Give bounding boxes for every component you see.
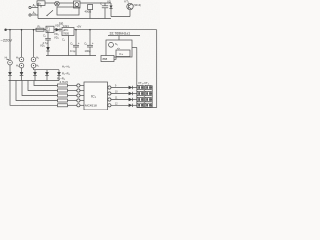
svg-text:VD: VD	[107, 0, 111, 4]
wire bottom a	[38, 18, 111, 20]
wire osc to VT feed	[132, 47, 137, 49]
contact row1	[137, 85, 151, 89]
label pin numbers	[115, 86, 118, 106]
svg-text:~220V: ~220V	[1, 38, 13, 43]
svg-text:H₁: H₁	[5, 56, 8, 60]
wire lamp column 2	[21, 30, 23, 58]
svg-text:4.7k×5: 4.7k×5	[60, 80, 69, 84]
lamp H4	[16, 63, 24, 68]
resistor R7	[58, 94, 77, 97]
svg-text:VD₁: VD₁	[55, 24, 60, 28]
wire regulator ground	[68, 36, 70, 56]
wire right edge	[156, 30, 158, 108]
box display driver	[101, 56, 114, 62]
wire route row2	[28, 81, 58, 91]
pin circle 3	[77, 94, 84, 97]
wire osc feed	[118, 36, 120, 40]
wire K1 lead	[40, 5, 42, 7]
wire top b	[60, 2, 74, 4]
wire diode header	[34, 69, 60, 71]
svg-text:H₅: H₅	[36, 64, 39, 68]
resistor R12	[85, 5, 93, 19]
sub box F	[116, 50, 130, 57]
wire matrix row stubs	[151, 88, 152, 106]
diode row4	[129, 104, 137, 107]
svg-text:VT₅: VT₅	[124, 0, 130, 4]
contact row3	[137, 97, 151, 101]
svg-text:400Ω: 400Ω	[85, 10, 92, 14]
lamp H3	[31, 56, 39, 62]
oscillator box U2	[106, 40, 132, 57]
buzzer HA	[55, 1, 60, 6]
pin circle 1	[77, 84, 84, 87]
wire lamp column 1	[9, 30, 11, 61]
ground bus	[46, 55, 96, 57]
diode VD14	[45, 70, 49, 81]
diode VD15	[57, 70, 61, 81]
wire matrix column B	[151, 85, 153, 107]
pin circle out2	[108, 92, 129, 95]
resistor R5	[58, 84, 77, 87]
pin circle 2	[77, 89, 84, 92]
pin circle 4	[77, 99, 84, 102]
contact row4	[137, 103, 151, 107]
svg-text:H₃: H₃	[36, 56, 39, 60]
svg-text:VD₃: VD₃	[54, 32, 59, 36]
IC U1	[84, 82, 108, 110]
svg-text:1621: 1621	[63, 24, 69, 28]
svg-text:MC4518: MC4518	[85, 104, 97, 108]
svg-text:C₄: C₄	[62, 38, 65, 42]
wire matrix bottom	[137, 107, 157, 109]
diode VD2	[40, 43, 50, 55]
svg-text:32.768kHz±1: 32.768kHz±1	[110, 32, 131, 36]
svg-text:F+: F+	[120, 52, 124, 56]
wire route row4	[16, 81, 58, 101]
svg-text:+5V: +5V	[77, 24, 82, 28]
regulator U3	[62, 28, 74, 36]
pin circle 5	[77, 104, 84, 107]
wire matrix column A	[143, 85, 145, 107]
svg-text:IC₂: IC₂	[91, 95, 97, 99]
contact row2	[137, 91, 151, 95]
transistor VT5	[127, 3, 133, 16]
relay box K	[57, 7, 79, 15]
wire top c	[80, 2, 111, 4]
svg-text:S₁: S₁	[115, 42, 118, 46]
svg-text:μPC: μPC	[63, 28, 68, 32]
terminal A1	[29, 6, 38, 8]
wire frequency underline	[108, 35, 140, 37]
svg-text:H₂: H₂	[16, 56, 19, 60]
wire route row1	[34, 81, 58, 86]
meter box P	[74, 1, 81, 8]
svg-text:C: C	[100, 2, 102, 6]
wire route row5	[10, 81, 58, 106]
resistor R9	[58, 104, 77, 107]
wire lamp2 lead	[21, 68, 23, 71]
diode VD12	[20, 71, 24, 80]
svg-text:+: +	[92, 41, 94, 45]
diode row2	[129, 92, 137, 95]
svg-text:100μ: 100μ	[85, 49, 91, 53]
svg-text:C₁: C₁	[43, 34, 46, 38]
svg-text:H₄: H₄	[16, 64, 19, 68]
svg-text:H₁~H₄: H₁~H₄	[62, 65, 71, 69]
svg-text:R₁~R₄: R₁~R₄	[62, 72, 71, 76]
node mains terminal	[5, 29, 7, 31]
svg-text:(9013): (9013)	[134, 3, 142, 7]
capacitor C1	[43, 32, 51, 47]
wire collector bus	[9, 80, 60, 82]
svg-text:C₃: C₃	[84, 41, 87, 45]
resistor R8	[58, 99, 77, 102]
wire AC bus	[6, 29, 157, 31]
svg-text:+: +	[78, 41, 80, 45]
wire transistor emitter	[111, 16, 130, 18]
wire lamp3 lead	[33, 68, 35, 70]
wire left vertical	[37, 3, 39, 19]
node bus taps	[9, 29, 91, 31]
capacitor C3	[84, 30, 94, 56]
resistor R11	[37, 1, 45, 6]
capacitor C6	[100, 2, 108, 19]
lamp H5	[31, 63, 39, 68]
svg-text:VT₁~VT₄: VT₁~VT₄	[138, 81, 150, 85]
switch S	[46, 10, 53, 16]
resistor R6	[58, 89, 77, 92]
diode VD11	[8, 71, 12, 80]
wire route row3	[22, 81, 58, 96]
diode row1	[129, 86, 137, 89]
capacitor C2	[70, 30, 80, 56]
diode row3	[129, 98, 137, 101]
svg-text:C₂: C₂	[70, 41, 73, 45]
pin circle out3	[108, 98, 129, 101]
diode VD1	[55, 24, 60, 32]
wire VT feed	[136, 48, 138, 108]
svg-text:R₁: R₁	[38, 24, 41, 28]
terminal A2	[29, 14, 38, 16]
resistor R1	[36, 24, 44, 31]
pin circle out4	[108, 104, 129, 107]
wire osc to driver	[114, 57, 116, 59]
wire lamp1 lead	[9, 65, 11, 71]
svg-text:4.7μ: 4.7μ	[43, 41, 49, 45]
svg-text:7805: 7805	[63, 32, 69, 36]
diode VD13	[33, 70, 37, 81]
lamp H2	[16, 56, 24, 62]
diode VD6	[107, 0, 113, 16]
wire top a	[45, 2, 55, 4]
wire lamp column 3	[33, 30, 35, 58]
lamp H1	[5, 56, 13, 65]
fuse box FU	[46, 26, 54, 33]
pin circle out1	[108, 86, 129, 89]
svg-text:888: 888	[103, 57, 108, 61]
svg-text:0.1μ: 0.1μ	[70, 49, 76, 53]
